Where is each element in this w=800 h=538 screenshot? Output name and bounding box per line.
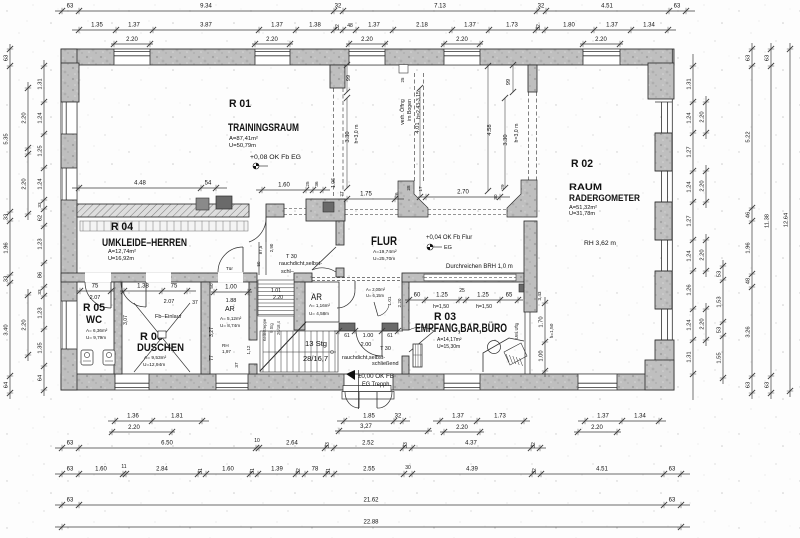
svg-text:1.25: 1.25 — [37, 145, 43, 156]
svg-text:Uml.Uftg: Uml.Uftg — [514, 322, 519, 339]
svg-text:48: 48 — [745, 278, 751, 284]
svg-text:2.20: 2.20 — [456, 37, 468, 43]
dim landing — [334, 330, 403, 332]
wall R04 bottom — [61, 273, 257, 282]
svg-text:50: 50 — [256, 261, 261, 266]
dim chain right 4 — [789, 43, 791, 397]
svg-text:1.75: 1.75 — [360, 192, 372, 198]
svg-text:61: 61 — [387, 333, 393, 339]
arch dashed lines left — [333, 88, 335, 197]
svg-text:T 30: T 30 — [286, 254, 297, 260]
svg-text:48: 48 — [347, 23, 353, 29]
opening dashed R04 — [284, 208, 306, 210]
wall DUSCHEN/AR — [201, 282, 210, 374]
svg-text:33: 33 — [37, 202, 42, 208]
svg-text:11: 11 — [121, 464, 126, 470]
svg-text:A=87,41m²: A=87,41m² — [229, 136, 258, 142]
svg-text:2.64: 2.64 — [286, 441, 298, 447]
svg-text:1.31: 1.31 — [686, 78, 692, 89]
svg-text:10: 10 — [254, 438, 260, 444]
svg-text:3.87: 3.87 — [200, 23, 212, 29]
svg-text:1,97: 1,97 — [222, 349, 231, 354]
svg-text:FLUR: FLUR — [371, 234, 397, 248]
wall landing left piece — [339, 323, 355, 331]
svg-text:A= 1,16m²: A= 1,16m² — [309, 303, 330, 308]
AR door arc — [337, 289, 355, 308]
svg-text:27: 27 — [339, 191, 344, 197]
svg-text:28: 28 — [406, 185, 411, 191]
door WC arc — [110, 282, 112, 308]
entrance double door — [358, 392, 360, 408]
outer wall right — [671, 49, 673, 390]
svg-text:30: 30 — [493, 194, 498, 200]
svg-text:1.36: 1.36 — [127, 414, 139, 420]
window left 1 — [61, 102, 77, 134]
svg-text:50: 50 — [209, 283, 214, 289]
svg-text:1.35: 1.35 — [37, 342, 43, 353]
svg-text:1.01: 1.01 — [271, 288, 281, 294]
svg-text:U=31,78m: U=31,78m — [569, 211, 595, 217]
svg-text:75: 75 — [171, 284, 178, 290]
svg-text:63: 63 — [669, 467, 676, 473]
svg-text:2,90: 2,90 — [269, 243, 274, 252]
svg-text:±0,00 OK FB: ±0,00 OK FB — [358, 373, 394, 380]
svg-text:1.37: 1.37 — [128, 23, 140, 29]
svg-text:1,12: 1,12 — [246, 345, 251, 354]
svg-text:13 Stg: 13 Stg — [305, 341, 327, 348]
svg-text:32: 32 — [296, 468, 302, 474]
svg-text:U= 8,74m: U= 8,74m — [220, 323, 240, 328]
svg-text:22.88: 22.88 — [363, 520, 379, 526]
svg-text:1.25: 1.25 — [436, 293, 448, 299]
svg-text:h=1,50: h=1,50 — [476, 304, 492, 310]
svg-text:RH: RH — [222, 343, 229, 348]
svg-text:1.37: 1.37 — [597, 414, 609, 420]
wall landing right piece — [382, 323, 398, 331]
svg-text:1.73: 1.73 — [506, 23, 518, 29]
svg-text:R 04: R 04 — [111, 221, 134, 233]
fire door R03 leaf — [409, 331, 434, 352]
landing door arc — [381, 330, 383, 356]
Durchreichen opening — [424, 274, 516, 281]
svg-text:29: 29 — [500, 184, 505, 190]
svg-text:32: 32 — [335, 4, 342, 10]
svg-text:1.73: 1.73 — [494, 414, 506, 420]
entrance steps — [343, 386, 391, 392]
opening dashed 2.70 — [428, 209, 507, 211]
wall FLUR left vertical — [336, 221, 344, 245]
svg-text:2.20: 2.20 — [699, 318, 705, 329]
door gap DUSCHEN — [146, 273, 171, 283]
dashed opening landing top — [312, 277, 402, 279]
svg-text:1.24: 1.24 — [686, 250, 692, 262]
window bottom 3 — [444, 374, 480, 389]
svg-text:Fb–Einlauf: Fb–Einlauf — [155, 314, 182, 320]
svg-text:2.70: 2.70 — [457, 190, 469, 196]
svg-text:77: 77 — [209, 355, 215, 361]
dim chain left 3 — [43, 60, 45, 396]
window bottom 4 — [578, 374, 617, 389]
window bottom 2 — [216, 374, 248, 389]
outer wall left — [61, 49, 77, 390]
svg-text:33: 33 — [325, 442, 331, 448]
svg-text:1.96: 1.96 — [3, 242, 9, 253]
wall stub top left — [330, 65, 345, 88]
svg-text:3,27: 3,27 — [360, 424, 372, 430]
svg-text:1.31: 1.31 — [686, 351, 692, 362]
svg-text:1.01: 1.01 — [387, 296, 392, 305]
corner pier top-right — [648, 63, 674, 99]
svg-text:1.34: 1.34 — [643, 23, 655, 29]
svg-text:1.24: 1.24 — [686, 181, 692, 193]
svg-text:3,07: 3,07 — [123, 315, 129, 325]
entrance opening — [344, 375, 393, 390]
window top 1 — [114, 49, 150, 64]
svg-text:64: 64 — [3, 381, 9, 388]
wall stair block top — [294, 273, 312, 282]
svg-text:26/18,4: 26/18,4 — [276, 320, 281, 335]
dim chain bottom 4 — [55, 504, 690, 506]
svg-text:R 05: R 05 — [83, 302, 105, 314]
svg-text:1.35: 1.35 — [91, 23, 103, 29]
svg-text:2.20: 2.20 — [128, 425, 140, 431]
svg-text:32: 32 — [395, 414, 402, 420]
window top 3 — [349, 49, 385, 64]
svg-text:+0,04 OK Fb Flur: +0,04 OK Fb Flur — [426, 235, 472, 241]
svg-text:schl–: schl– — [281, 269, 295, 275]
svg-text:2.20: 2.20 — [21, 178, 27, 189]
dim mid 4.48/54 — [72, 187, 227, 189]
svg-text:1.96: 1.96 — [745, 242, 751, 253]
svg-text:1.23: 1.23 — [37, 307, 43, 318]
svg-text:9 Stg: 9 Stg — [269, 322, 274, 332]
svg-text:2.00: 2.00 — [361, 342, 372, 348]
svg-text:TRAININGSRAUM: TRAININGSRAUM — [228, 122, 299, 134]
svg-text:2.20: 2.20 — [273, 295, 283, 301]
svg-text:99: 99 — [506, 79, 512, 85]
svg-text:64: 64 — [37, 374, 43, 381]
section marker line — [358, 370, 360, 409]
svg-text:32: 32 — [335, 24, 341, 30]
svg-text:3.40: 3.40 — [3, 324, 9, 335]
svg-text:26: 26 — [394, 192, 399, 198]
svg-text:4.51: 4.51 — [596, 467, 608, 473]
svg-text:2.20: 2.20 — [266, 37, 278, 43]
shower X mark — [134, 303, 190, 372]
outer wall bottom — [61, 374, 674, 390]
svg-text:31: 31 — [198, 468, 204, 474]
svg-text:EMPFANG,BAR,BÜRO: EMPFANG,BAR,BÜRO — [415, 320, 507, 335]
dim WC row — [77, 290, 114, 292]
svg-text:1.60: 1.60 — [278, 183, 290, 189]
svg-text:1.88: 1.88 — [226, 298, 237, 304]
svg-text:5.35: 5.35 — [3, 133, 9, 144]
door gap AR left — [218, 273, 243, 283]
svg-text:30: 30 — [405, 465, 411, 471]
svg-text:31: 31 — [326, 468, 332, 474]
svg-text:DUSCHEN: DUSCHEN — [137, 342, 184, 354]
svg-text:65: 65 — [506, 293, 513, 299]
svg-text:5.22: 5.22 — [745, 131, 751, 142]
svg-text:1.24: 1.24 — [37, 112, 43, 124]
svg-text:1.60: 1.60 — [222, 467, 234, 473]
svg-text:6.50: 6.50 — [161, 441, 173, 447]
svg-text:AR: AR — [311, 292, 322, 302]
svg-text:1.37: 1.37 — [271, 23, 283, 29]
svg-text:63: 63 — [3, 55, 9, 61]
svg-text:2.20: 2.20 — [699, 249, 705, 260]
svg-text:h=2,43-3,15: h=2,43-3,15 — [416, 91, 422, 119]
door gap WC — [85, 273, 111, 283]
dim chain right 1 — [692, 54, 694, 400]
svg-text:+0,08 OK Fb EG: +0,08 OK Fb EG — [250, 154, 301, 161]
svg-text:1.55: 1.55 — [716, 352, 722, 363]
svg-text:53: 53 — [716, 271, 722, 277]
svg-text:86: 86 — [37, 272, 43, 278]
svg-text:63: 63 — [67, 441, 74, 447]
svg-text:2.18: 2.18 — [416, 23, 428, 29]
stair center line — [263, 351, 336, 353]
svg-text:Durchreichen BRH 1,0 m: Durchreichen BRH 1,0 m — [446, 264, 513, 270]
svg-text:EG: EG — [444, 245, 452, 251]
Kellertreppe treads — [258, 280, 294, 316]
svg-text:4.39: 4.39 — [466, 467, 478, 473]
svg-text:1.37: 1.37 — [368, 23, 380, 29]
svg-text:1.39: 1.39 — [271, 467, 283, 473]
svg-text:2.07: 2.07 — [90, 295, 101, 301]
svg-text:1.80: 1.80 — [563, 23, 575, 29]
svg-text:RADERGOMETER: RADERGOMETER — [569, 193, 640, 204]
svg-text:1.85: 1.85 — [363, 414, 375, 420]
wall stub top right — [528, 65, 537, 92]
window bottom 1 — [115, 374, 149, 389]
svg-text:A=14,17m²: A=14,17m² — [437, 337, 462, 343]
svg-text:2.52: 2.52 — [362, 441, 374, 447]
outer wall top — [61, 49, 674, 65]
main stair treads — [260, 331, 338, 372]
svg-text:4.37: 4.37 — [465, 441, 477, 447]
svg-text:63: 63 — [669, 498, 676, 504]
window top 5 — [583, 49, 620, 64]
window right 1 — [661, 102, 663, 133]
svg-text:25: 25 — [400, 77, 405, 82]
svg-text:1.00: 1.00 — [538, 350, 544, 361]
dim chain bottom 2 — [55, 447, 546, 449]
svg-text:rauchdicht,selbst-: rauchdicht,selbst- — [279, 261, 322, 267]
svg-text:1.25: 1.25 — [477, 293, 489, 299]
svg-text:33: 33 — [3, 214, 9, 220]
svg-text:1.26: 1.26 — [686, 284, 692, 295]
middle shaft pier left (chamfer) — [398, 181, 428, 217]
door R04 corridor arc — [265, 217, 267, 242]
svg-text:h=1,50: h=1,50 — [433, 304, 449, 310]
wall piece R01/corridor — [266, 204, 284, 217]
dark block junction — [519, 284, 527, 292]
dim chain top 2 — [72, 29, 676, 31]
svg-text:h=1,50: h=1,50 — [549, 323, 555, 338]
svg-text:87,5: 87,5 — [258, 245, 263, 254]
svg-text:78: 78 — [312, 467, 319, 473]
svg-text:1.00: 1.00 — [225, 285, 237, 291]
window right 2 — [661, 171, 663, 202]
svg-text:Kellertreppe: Kellertreppe — [262, 318, 267, 341]
wall R01/R04 hatched — [77, 204, 249, 217]
svg-text:2.55: 2.55 — [363, 467, 375, 473]
dark block on wall 54 niche — [216, 196, 232, 209]
svg-text:2.84: 2.84 — [156, 467, 168, 473]
svg-text:3.30: 3.30 — [503, 134, 509, 145]
svg-text:25: 25 — [459, 288, 465, 294]
svg-text:Tür: Tür — [226, 266, 233, 271]
svg-text:2.20: 2.20 — [21, 319, 27, 330]
dim mid 2.70 — [418, 196, 510, 198]
svg-text:1.27: 1.27 — [686, 146, 692, 157]
svg-text:AR: AR — [225, 306, 235, 313]
shaft dim lines — [346, 65, 348, 92]
svg-text:32: 32 — [532, 468, 538, 474]
svg-text:1.81: 1.81 — [171, 414, 183, 420]
svg-text:37: 37 — [192, 300, 198, 306]
svg-text:2.20: 2.20 — [699, 111, 705, 122]
svg-text:2.20: 2.20 — [21, 112, 27, 123]
svg-text:63: 63 — [764, 55, 770, 61]
dim mid 1.75 — [340, 198, 404, 200]
wall WC/DUSCHEN — [114, 282, 122, 374]
svg-text:U=15,30m: U=15,30m — [437, 344, 460, 350]
svg-text:U= 6,15m: U= 6,15m — [366, 293, 384, 298]
door DUSCHEN arc — [145, 282, 147, 307]
svg-text:2.20: 2.20 — [595, 37, 607, 43]
dim chain left 2 — [27, 82, 29, 154]
window right 4 — [661, 309, 663, 340]
dim top 2.20 windows — [111, 43, 153, 45]
svg-text:46: 46 — [745, 212, 751, 218]
svg-text:3.30: 3.30 — [345, 131, 351, 142]
svg-text:63: 63 — [67, 498, 74, 504]
svg-text:U=50,79m: U=50,79m — [229, 143, 256, 149]
AR closet outline — [305, 282, 339, 322]
svg-text:T 30: T 30 — [380, 346, 391, 352]
svg-text:61: 61 — [344, 333, 350, 339]
svg-text:1.37: 1.37 — [606, 23, 618, 29]
svg-text:A= 6,36m²: A= 6,36m² — [86, 328, 108, 333]
svg-text:RAUM: RAUM — [569, 182, 602, 193]
svg-text:1.27: 1.27 — [686, 215, 692, 226]
svg-text:1.60: 1.60 — [95, 467, 107, 473]
cabinet — [413, 344, 422, 367]
svg-text:2.20: 2.20 — [126, 37, 138, 43]
opening dashed 1.75 — [345, 209, 398, 211]
svg-text:63: 63 — [745, 382, 751, 388]
svg-text:3,43: 3,43 — [537, 291, 542, 300]
dim R03 right vertical — [544, 297, 546, 377]
svg-text:schließend: schließend — [372, 361, 399, 367]
svg-text:1.53: 1.53 — [716, 296, 722, 307]
svg-text:1.00: 1.00 — [363, 333, 374, 339]
entrance mark — [346, 370, 355, 380]
office desk — [483, 338, 524, 372]
svg-text:h=3,0 m: h=3,0 m — [514, 124, 520, 143]
svg-text:U= 4,58m: U= 4,58m — [309, 311, 329, 316]
fire door FLUR leaf — [312, 247, 336, 270]
svg-text:63: 63 — [67, 4, 74, 10]
light partition below — [524, 312, 526, 374]
svg-text:A= 2,00m²: A= 2,00m² — [366, 287, 385, 292]
arch dashed lines right — [528, 92, 530, 180]
svg-text:A=19,74m²: A=19,74m² — [373, 249, 397, 255]
svg-text:28/16,7: 28/16,7 — [303, 356, 328, 363]
window top 4 — [444, 49, 480, 64]
corner pier bottom-right — [645, 360, 674, 390]
dim right 2.20 windows — [705, 96, 707, 139]
svg-text:4.51: 4.51 — [601, 4, 613, 10]
svg-text:1.23: 1.23 — [37, 238, 43, 249]
dim chain right 2 — [751, 43, 753, 399]
dim chain left 1 — [9, 44, 11, 399]
svg-text:53: 53 — [716, 327, 722, 333]
svg-text:32: 32 — [538, 4, 545, 10]
svg-text:2.20: 2.20 — [591, 425, 603, 431]
svg-text:32: 32 — [536, 24, 542, 30]
svg-text:75: 75 — [92, 284, 99, 290]
svg-text:1.06: 1.06 — [331, 178, 337, 188]
svg-text:1.31: 1.31 — [37, 78, 43, 89]
dim chain top 1 — [55, 10, 695, 12]
dim R03 chain — [405, 299, 523, 301]
dim chain right window detail — [722, 260, 724, 384]
dim chain bottom 3 — [55, 473, 690, 475]
svg-text:33: 33 — [37, 289, 42, 295]
svg-text:R 02: R 02 — [571, 158, 593, 170]
svg-text:im Bogen: im Bogen — [407, 99, 413, 121]
dark block on wall right — [323, 202, 334, 212]
svg-text:17: 17 — [418, 186, 423, 192]
svg-text:63: 63 — [745, 55, 751, 61]
svg-text:U=25,70m: U=25,70m — [373, 256, 395, 262]
svg-text:63: 63 — [764, 382, 770, 388]
svg-text:1.24: 1.24 — [686, 112, 692, 124]
svg-text:25: 25 — [305, 181, 310, 187]
svg-text:2.20: 2.20 — [699, 180, 705, 191]
stair cut diagonal — [260, 322, 306, 371]
svg-text:1.24: 1.24 — [37, 178, 43, 190]
svg-text:3,27: 3,27 — [209, 327, 215, 337]
svg-text:1.38: 1.38 — [137, 284, 149, 290]
svg-text:1.70: 1.70 — [538, 316, 544, 327]
svg-text:63: 63 — [67, 467, 74, 473]
svg-text:63: 63 — [674, 4, 681, 10]
pier notch — [399, 65, 408, 73]
dim chain right 3 — [770, 43, 772, 399]
svg-text:A= 5,12m²: A= 5,12m² — [220, 316, 242, 321]
svg-text:A=12,74m²: A=12,74m² — [108, 249, 136, 255]
svg-text:R 01: R 01 — [229, 98, 251, 110]
wall R03/R02 — [524, 221, 537, 312]
wall vestibule/R03 — [402, 277, 409, 330]
door AR-left arc — [242, 247, 244, 272]
svg-text:1.37: 1.37 — [464, 23, 476, 29]
svg-text:3.26: 3.26 — [745, 326, 751, 337]
svg-text:2.20: 2.20 — [397, 298, 402, 307]
svg-text:U=16,92m: U=16,92m — [108, 256, 134, 262]
svg-text:1.34: 1.34 — [634, 414, 646, 420]
svg-text:1.24: 1.24 — [686, 319, 692, 331]
svg-text:EG Trepph.: EG Trepph. — [362, 381, 391, 388]
svg-text:2.20: 2.20 — [361, 37, 373, 43]
wall Keller/stair — [294, 282, 305, 330]
svg-text:U=12,94m: U=12,94m — [143, 362, 165, 368]
toilets — [81, 350, 93, 365]
